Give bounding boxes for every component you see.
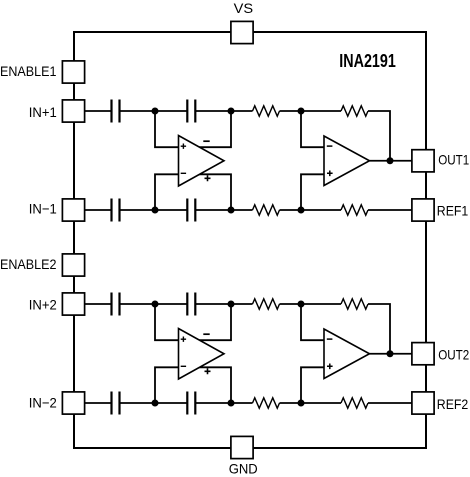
wire R3 to node F1 xyxy=(280,209,302,211)
U1 -OUT label xyxy=(203,140,209,142)
capacitor C2 (feedback) xyxy=(186,100,188,123)
wire C5 to node A2 xyxy=(120,303,156,305)
wire node F2 to U4 +IN xyxy=(301,367,325,403)
svg-text:IN−2: IN−2 xyxy=(29,394,57,410)
capacitor C4 (feedback) xyxy=(186,199,188,222)
wire R8 to REF2 pin xyxy=(368,402,412,404)
node A2 xyxy=(152,301,159,308)
wire R7 to node F2 xyxy=(280,402,302,404)
resistor R5 xyxy=(253,299,280,309)
wire node E2 to R7 xyxy=(231,402,253,404)
node C2 xyxy=(298,301,305,308)
U1 +IN label xyxy=(181,144,186,149)
wire node F1 to R4 xyxy=(301,209,341,211)
U3 +OUT label xyxy=(205,368,211,374)
pin ENABLE2 xyxy=(62,254,84,276)
wire C3 to node D1 xyxy=(120,209,156,211)
wire U3 +OUT to node E2 xyxy=(198,367,231,403)
node F2 xyxy=(298,400,305,407)
node C1 xyxy=(298,108,305,115)
U1 -IN label xyxy=(181,172,186,174)
wire IN+1 to C1 xyxy=(85,110,112,112)
resistor R6 (feedback) xyxy=(341,299,368,309)
node D2 xyxy=(152,400,159,407)
wire node D1 to U1 -IN xyxy=(155,174,179,210)
pin REF1 xyxy=(412,199,434,221)
pin IN-1 xyxy=(62,199,84,221)
wire node F1 to U2 +IN xyxy=(301,174,325,210)
wire U1 -OUT to node B1 xyxy=(198,111,231,147)
pin ENABLE1 xyxy=(62,61,84,83)
svg-text:ENABLE2: ENABLE2 xyxy=(0,256,57,272)
op-amp U2 (output buffer) xyxy=(324,136,370,186)
resistor R3 xyxy=(253,205,280,215)
wire node B1 to R1 xyxy=(231,110,253,112)
resistor R8 (to REF2) xyxy=(341,398,368,408)
wire node A2 to C6 xyxy=(155,303,188,305)
pin GND xyxy=(231,436,253,458)
wire node A1 to U1 +IN xyxy=(155,111,179,147)
U3 +IN label xyxy=(181,337,186,342)
wire C6 to node B2 xyxy=(195,303,231,305)
U2 +IN label xyxy=(327,171,333,177)
wire node C1 to U2 -IN xyxy=(301,111,325,147)
node B1 xyxy=(228,108,235,115)
pin IN+1 xyxy=(62,100,84,122)
pin VS xyxy=(231,21,253,43)
node B2 xyxy=(228,301,235,308)
wire R4 to REF1 pin xyxy=(368,209,412,211)
wire node B2 to R5 xyxy=(231,303,253,305)
wire node C2 to R6 xyxy=(301,303,341,305)
wire C7 to node D2 xyxy=(120,402,156,404)
wire U3 -OUT to node B2 xyxy=(198,304,231,340)
resistor R7 xyxy=(253,398,280,408)
capacitor C1 xyxy=(110,100,112,123)
wire R1 to node C1 xyxy=(280,110,302,112)
wire U1 +OUT to node E1 xyxy=(198,174,231,210)
wire node D2 to U3 -IN xyxy=(155,367,179,403)
wire R5 to node C2 xyxy=(280,303,302,305)
wire R2 to output node (feedback) xyxy=(368,111,390,161)
pin IN+2 xyxy=(62,293,84,315)
wire node A1 to C2 xyxy=(155,110,188,112)
svg-text:GND: GND xyxy=(229,460,258,476)
wire C4 to node E1 xyxy=(195,209,231,211)
capacitor C3 xyxy=(110,199,112,222)
node A1 xyxy=(152,108,159,115)
capacitor C7 xyxy=(110,392,112,415)
wire U4 output to OUT2 pin xyxy=(370,353,412,355)
svg-text:OUT1: OUT1 xyxy=(438,151,469,167)
wire node C2 to U4 -IN xyxy=(301,304,325,340)
resistor R1 xyxy=(253,106,280,116)
svg-text:IN−1: IN−1 xyxy=(29,200,57,216)
node E1 xyxy=(228,207,235,214)
U3 -OUT label xyxy=(203,333,209,335)
node D1 xyxy=(152,207,159,214)
wire R6 to output node (feedback) xyxy=(368,304,390,354)
op-amp U4 (output buffer) xyxy=(324,329,370,379)
svg-text:REF2: REF2 xyxy=(437,396,469,412)
resistor R4 (to REF1) xyxy=(341,205,368,215)
svg-text:OUT2: OUT2 xyxy=(438,346,469,362)
U2 -IN label xyxy=(327,145,333,147)
pin REF2 xyxy=(412,392,434,414)
op-amp U3 (gain stage) xyxy=(179,329,225,380)
U3 -IN label xyxy=(181,365,186,367)
node OUT1 (feedback junction) xyxy=(387,157,394,164)
U1 +OUT label xyxy=(205,175,211,181)
wire IN-1 to C3 xyxy=(85,209,112,211)
svg-text:VS: VS xyxy=(234,0,254,16)
svg-text:ENABLE1: ENABLE1 xyxy=(0,63,57,79)
wire node C1 to R2 xyxy=(301,110,341,112)
pin IN-2 xyxy=(62,392,84,414)
node F1 xyxy=(298,207,305,214)
wire node D2 to C8 xyxy=(155,402,188,404)
device boundary (outer border) xyxy=(74,32,426,448)
capacitor C8 (feedback) xyxy=(186,392,188,415)
capacitor C5 xyxy=(110,293,112,316)
U4 -IN label xyxy=(327,338,333,340)
svg-text:INA2191: INA2191 xyxy=(339,51,396,71)
wire C8 to node E2 xyxy=(195,402,231,404)
pin OUT1 xyxy=(412,150,434,172)
capacitor C6 (feedback) xyxy=(186,293,188,316)
svg-text:REF1: REF1 xyxy=(437,202,469,218)
svg-text:IN+1: IN+1 xyxy=(29,104,57,120)
pin OUT2 xyxy=(412,343,434,365)
op-amp U1 (gain stage) xyxy=(179,136,225,187)
svg-text:IN+2: IN+2 xyxy=(29,296,57,312)
wire node E1 to R3 xyxy=(231,209,253,211)
wire IN+2 to C5 xyxy=(85,303,112,305)
wire C1 to node A1 xyxy=(120,110,156,112)
node E2 xyxy=(228,400,235,407)
resistor R2 (feedback) xyxy=(341,106,368,116)
wire C2 to node B1 xyxy=(195,110,231,112)
wire IN-2 to C7 xyxy=(85,402,112,404)
wire node D1 to C4 xyxy=(155,209,188,211)
node OUT2 (feedback junction) xyxy=(387,350,394,357)
wire node F2 to R8 xyxy=(301,402,341,404)
wire node A2 to U3 +IN xyxy=(155,304,179,340)
U4 +IN label xyxy=(327,364,333,370)
wire U2 output to OUT1 pin xyxy=(370,160,412,162)
